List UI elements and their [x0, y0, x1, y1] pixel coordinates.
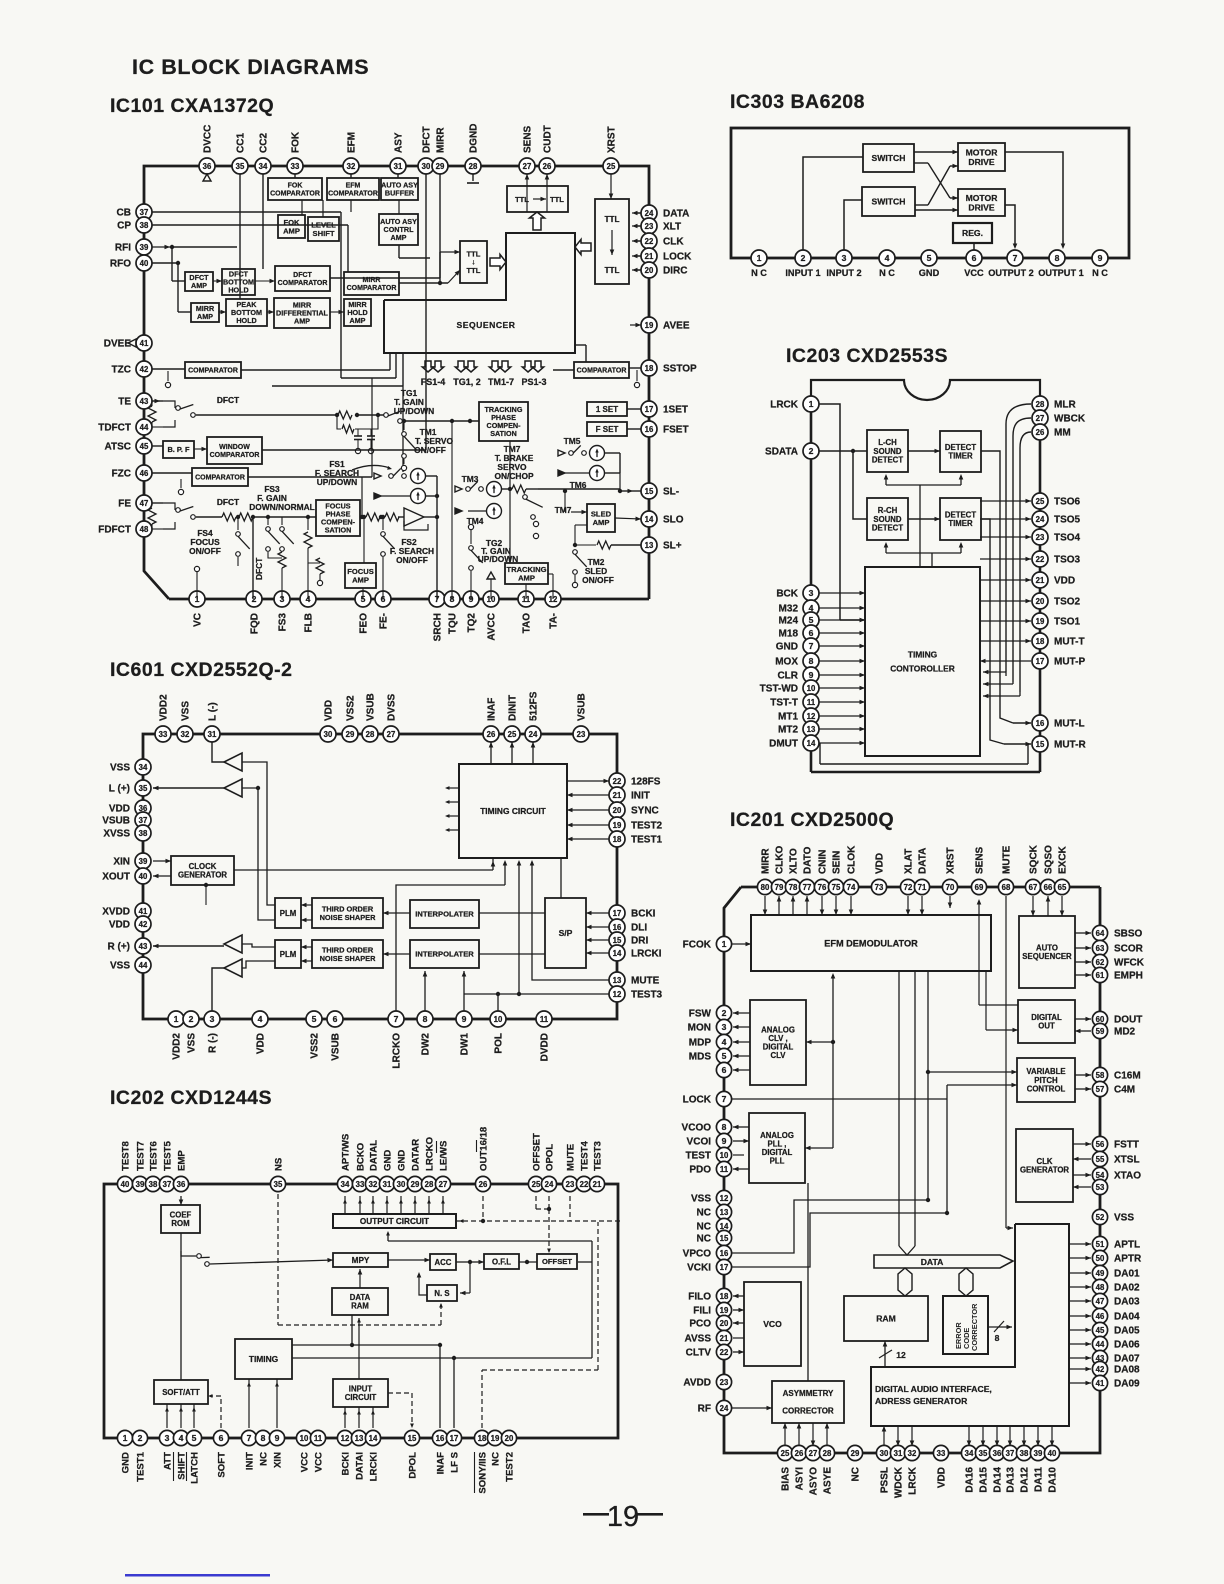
svg-text:1SET: 1SET	[663, 405, 688, 416]
svg-text:TEST2: TEST2	[631, 821, 663, 832]
svg-text:6: 6	[333, 1014, 338, 1024]
svg-text:42: 42	[1096, 1365, 1105, 1374]
svg-text:MUT-T: MUT-T	[1054, 637, 1085, 648]
svg-text:26: 26	[1036, 428, 1045, 437]
svg-text:CONTROL: CONTROL	[1027, 1084, 1066, 1093]
svg-text:10: 10	[807, 684, 816, 693]
svg-text:FS1-4: FS1-4	[421, 377, 446, 387]
svg-text:DA03: DA03	[1114, 1297, 1140, 1308]
svg-text:17: 17	[645, 405, 654, 414]
svg-text:24: 24	[545, 1180, 554, 1189]
svg-text:CLK: CLK	[663, 237, 684, 248]
svg-text:7: 7	[247, 1433, 252, 1443]
svg-text:COMPARATOR: COMPARATOR	[195, 475, 245, 482]
svg-text:46: 46	[140, 469, 149, 478]
svg-text:18: 18	[1036, 637, 1045, 646]
svg-text:DATAL: DATAL	[369, 1140, 380, 1171]
svg-text:23: 23	[577, 730, 586, 739]
svg-text:DRIVE: DRIVE	[968, 202, 995, 212]
svg-text:VSUB: VSUB	[102, 816, 130, 827]
svg-text:LE/WS: LE/WS	[439, 1140, 450, 1171]
svg-text:59: 59	[1096, 1027, 1105, 1036]
svg-text:LATCH: LATCH	[190, 1452, 201, 1484]
svg-text:28: 28	[823, 1449, 832, 1458]
svg-text:DATAI: DATAI	[355, 1452, 366, 1480]
svg-text:45: 45	[140, 442, 149, 451]
svg-text:M32: M32	[779, 604, 799, 615]
svg-text:DATA: DATA	[663, 209, 689, 220]
svg-text:34: 34	[139, 763, 148, 772]
svg-text:FILI: FILI	[693, 1306, 711, 1317]
svg-text:MDS: MDS	[689, 1052, 712, 1063]
svg-text:77: 77	[803, 883, 812, 892]
svg-text:73: 73	[875, 883, 884, 892]
svg-text:25: 25	[1036, 497, 1045, 506]
svg-text:37: 37	[1006, 1449, 1015, 1458]
svg-text:8: 8	[261, 1433, 266, 1443]
svg-text:29: 29	[411, 1180, 420, 1189]
svg-text:41: 41	[139, 907, 148, 916]
svg-text:32: 32	[347, 162, 356, 171]
svg-text:FSET: FSET	[663, 425, 689, 436]
svg-text:24: 24	[529, 730, 538, 739]
svg-text:6: 6	[722, 1065, 727, 1075]
svg-text:AVCC: AVCC	[487, 613, 498, 641]
svg-text:36: 36	[203, 162, 212, 171]
svg-text:DW2: DW2	[421, 1033, 432, 1056]
svg-text:GND: GND	[776, 642, 798, 653]
svg-text:VSS: VSS	[691, 1194, 711, 1205]
svg-text:GND: GND	[121, 1452, 132, 1473]
svg-text:SRCH: SRCH	[433, 613, 444, 641]
svg-text:IC203 CXD2553S: IC203 CXD2553S	[786, 345, 948, 367]
svg-text:VDD2: VDD2	[159, 694, 170, 721]
svg-text:INPUT 2: INPUT 2	[826, 268, 861, 278]
svg-text:RF: RF	[698, 1404, 711, 1415]
svg-text:SEQUENCER: SEQUENCER	[457, 320, 516, 330]
svg-text:NOISE SHAPER: NOISE SHAPER	[320, 954, 377, 963]
svg-text:DATA: DATA	[921, 1257, 944, 1267]
svg-text:TG1, 2: TG1, 2	[453, 377, 481, 387]
svg-text:37: 37	[163, 1180, 172, 1189]
svg-text:2: 2	[722, 1008, 727, 1018]
svg-text:SDATA: SDATA	[765, 447, 798, 458]
svg-text:22: 22	[1036, 555, 1045, 564]
svg-text:FEO: FEO	[359, 613, 370, 634]
svg-text:35: 35	[979, 1449, 988, 1458]
svg-text:INTERPOLATER: INTERPOLATER	[415, 950, 474, 959]
svg-text:DFCT: DFCT	[293, 272, 312, 279]
svg-text:22: 22	[720, 1348, 729, 1357]
svg-text:56: 56	[1096, 1140, 1105, 1149]
svg-text:23: 23	[566, 1180, 575, 1189]
svg-text:7: 7	[1013, 253, 1018, 263]
svg-text:FSW: FSW	[689, 1009, 712, 1020]
svg-text:TTL: TTL	[604, 215, 619, 224]
svg-text:68: 68	[1002, 883, 1011, 892]
svg-text:9: 9	[1098, 253, 1103, 263]
svg-text:32: 32	[369, 1180, 378, 1189]
svg-text:62: 62	[1096, 958, 1105, 967]
svg-text:TIMING CIRCUIT: TIMING CIRCUIT	[480, 806, 546, 816]
svg-text:44: 44	[140, 423, 149, 432]
svg-text:FE: FE	[118, 499, 131, 510]
svg-text:78: 78	[789, 883, 798, 892]
svg-text:37: 37	[140, 208, 149, 217]
svg-text:SHIFT: SHIFT	[177, 1452, 188, 1480]
svg-text:9: 9	[809, 670, 814, 680]
svg-text:DA14: DA14	[993, 1467, 1004, 1493]
svg-text:DA09: DA09	[1114, 1379, 1140, 1390]
svg-text:BCK: BCK	[776, 589, 798, 600]
svg-text:67: 67	[1029, 883, 1038, 892]
svg-text:20: 20	[1036, 597, 1045, 606]
svg-text:DA05: DA05	[1114, 1326, 1140, 1337]
svg-text:TSO3: TSO3	[1054, 555, 1081, 566]
svg-text:MOX: MOX	[775, 657, 798, 668]
svg-text:66: 66	[1044, 883, 1053, 892]
svg-text:IC303 BA6208: IC303 BA6208	[730, 91, 865, 113]
svg-text:4: 4	[179, 1433, 184, 1443]
svg-text:SL+: SL+	[663, 541, 682, 552]
svg-text:VCC: VCC	[964, 268, 984, 278]
svg-text:OFFSET: OFFSET	[542, 1257, 572, 1266]
svg-text:VDD: VDD	[937, 1467, 948, 1488]
svg-text:XVSS: XVSS	[103, 829, 130, 840]
svg-text:4: 4	[885, 253, 890, 263]
svg-text:42: 42	[140, 365, 149, 374]
svg-text:DA08: DA08	[1114, 1365, 1140, 1376]
svg-text:30: 30	[880, 1449, 889, 1458]
svg-text:3: 3	[165, 1433, 170, 1443]
svg-text:33: 33	[937, 1449, 946, 1458]
svg-text:VDD: VDD	[109, 804, 130, 815]
svg-text:47: 47	[1096, 1297, 1105, 1306]
svg-text:FOK: FOK	[288, 183, 303, 190]
svg-text:UP/DOWN: UP/DOWN	[317, 477, 357, 487]
svg-text:38: 38	[140, 221, 149, 230]
svg-text:25: 25	[508, 730, 517, 739]
svg-text:3: 3	[722, 1022, 727, 1032]
svg-text:RAM: RAM	[351, 1302, 369, 1311]
svg-text:R (-): R (-)	[208, 1033, 219, 1053]
svg-text:19: 19	[1036, 617, 1045, 626]
svg-text:ATT: ATT	[163, 1452, 174, 1470]
svg-text:TSO1: TSO1	[1054, 617, 1081, 628]
svg-text:IC201 CXD2500Q: IC201 CXD2500Q	[730, 809, 894, 831]
svg-text:L (-): L (-)	[208, 702, 219, 721]
svg-text:32: 32	[181, 730, 190, 739]
svg-text:IC101 CXA1372Q: IC101 CXA1372Q	[110, 95, 274, 117]
svg-text:DFCT: DFCT	[254, 557, 264, 580]
svg-text:VCC: VCC	[314, 1452, 325, 1472]
svg-text:COMPARATOR: COMPARATOR	[278, 280, 328, 287]
svg-text:GND: GND	[383, 1150, 394, 1171]
svg-text:VCO: VCO	[763, 1319, 782, 1329]
svg-text:21: 21	[1036, 576, 1045, 585]
svg-text:29: 29	[346, 730, 355, 739]
svg-text:AVDD: AVDD	[683, 1378, 711, 1389]
svg-text:8: 8	[423, 1014, 428, 1024]
svg-text:80: 80	[761, 883, 770, 892]
svg-text:18: 18	[720, 1292, 729, 1301]
svg-text:18: 18	[478, 1434, 487, 1443]
svg-text:MIRR: MIRR	[761, 848, 772, 874]
svg-text:XLT: XLT	[663, 222, 681, 233]
svg-text:VCC: VCC	[300, 1452, 311, 1472]
svg-text:SOFT/ATT: SOFT/ATT	[162, 1388, 200, 1397]
svg-text:TM5: TM5	[564, 436, 581, 446]
svg-text:23: 23	[645, 222, 654, 231]
svg-text:RFI: RFI	[115, 243, 131, 254]
svg-text:NC: NC	[697, 1208, 711, 1219]
svg-text:L (+): L (+)	[109, 784, 130, 795]
svg-text:AMP: AMP	[283, 226, 300, 235]
svg-text:CLOK: CLOK	[847, 845, 858, 874]
svg-text:22: 22	[645, 237, 654, 246]
svg-text:TEST5: TEST5	[163, 1140, 174, 1171]
svg-text:VDD: VDD	[875, 853, 886, 874]
svg-text:MIRR: MIRR	[436, 127, 447, 153]
svg-text:COMPARATOR: COMPARATOR	[270, 190, 320, 197]
svg-text:16: 16	[613, 923, 622, 932]
svg-text:XOUT: XOUT	[102, 872, 130, 883]
svg-text:NC: NC	[259, 1452, 270, 1466]
svg-text:CB: CB	[117, 208, 131, 219]
svg-text:1: 1	[757, 253, 762, 263]
svg-text:34: 34	[965, 1449, 974, 1458]
svg-text:21: 21	[613, 791, 622, 800]
svg-text:28: 28	[366, 730, 375, 739]
svg-text:29: 29	[436, 162, 445, 171]
svg-text:60: 60	[1096, 1015, 1105, 1024]
svg-text:WBCK: WBCK	[1054, 414, 1086, 425]
svg-text:5: 5	[722, 1051, 727, 1061]
svg-text:DA04: DA04	[1114, 1312, 1140, 1323]
svg-text:11: 11	[720, 1165, 729, 1174]
svg-text:C4M: C4M	[1114, 1085, 1135, 1096]
svg-text:SEQUENCER: SEQUENCER	[1022, 952, 1072, 961]
svg-text:52: 52	[1096, 1213, 1105, 1222]
svg-text:INIT: INIT	[631, 791, 650, 802]
svg-text:ON/CHOP: ON/CHOP	[494, 471, 534, 481]
svg-text:NS: NS	[274, 1157, 285, 1171]
svg-text:SENS: SENS	[975, 846, 986, 874]
svg-text:FLB: FLB	[304, 613, 315, 632]
svg-text:50: 50	[1096, 1254, 1105, 1263]
svg-text:37: 37	[139, 816, 148, 825]
svg-text:FS3: FS3	[278, 613, 289, 632]
svg-text:TEST: TEST	[685, 1151, 711, 1162]
svg-text:3: 3	[842, 253, 847, 263]
svg-text:10: 10	[720, 1151, 729, 1160]
svg-text:15: 15	[720, 1234, 729, 1243]
svg-text:SATION: SATION	[325, 526, 352, 535]
svg-text:DA15: DA15	[979, 1467, 990, 1493]
svg-text:DRI: DRI	[631, 936, 648, 947]
svg-text:CLTV: CLTV	[686, 1348, 712, 1359]
svg-text:EFM DEMODULATOR: EFM DEMODULATOR	[824, 938, 918, 948]
svg-text:26: 26	[543, 162, 552, 171]
svg-text:61: 61	[1096, 971, 1105, 980]
svg-text:DA02: DA02	[1114, 1283, 1140, 1294]
svg-text:38: 38	[139, 829, 148, 838]
svg-text:SSTOP: SSTOP	[663, 364, 697, 375]
svg-text:S/P: S/P	[559, 928, 573, 938]
svg-text:VCOO: VCOO	[682, 1123, 712, 1134]
svg-text:NC: NC	[491, 1452, 502, 1466]
svg-text:20: 20	[505, 1434, 514, 1443]
svg-text:AMP: AMP	[350, 316, 366, 325]
svg-text:TEST1: TEST1	[136, 1451, 147, 1482]
svg-text:MT2: MT2	[778, 725, 798, 736]
svg-text:N C: N C	[751, 268, 767, 278]
svg-text:AMP: AMP	[191, 281, 207, 290]
svg-text:38: 38	[149, 1180, 158, 1189]
svg-text:11: 11	[540, 1015, 549, 1024]
svg-text:BCKI: BCKI	[341, 1452, 352, 1476]
svg-text:75: 75	[832, 883, 841, 892]
svg-text:24: 24	[645, 209, 654, 218]
svg-text:VSUB: VSUB	[366, 693, 377, 721]
svg-text:DFCT: DFCT	[217, 497, 240, 507]
svg-text:DA07: DA07	[1114, 1354, 1140, 1365]
svg-text:26: 26	[795, 1449, 804, 1458]
svg-text:19: 19	[613, 821, 622, 830]
svg-text:2: 2	[801, 253, 806, 263]
svg-text:22: 22	[580, 1180, 589, 1189]
svg-text:VCKI: VCKI	[687, 1263, 711, 1274]
svg-text:TDFCT: TDFCT	[98, 423, 131, 434]
svg-text:27: 27	[523, 162, 532, 171]
svg-text:MUT-L: MUT-L	[1054, 719, 1085, 730]
svg-text:VPCO: VPCO	[683, 1249, 712, 1260]
svg-text:12: 12	[341, 1434, 350, 1443]
svg-text:OPOL: OPOL	[545, 1144, 556, 1171]
svg-text:DVDD: DVDD	[540, 1033, 551, 1061]
svg-text:5: 5	[927, 253, 932, 263]
svg-text:DVEE: DVEE	[104, 339, 132, 350]
svg-text:27: 27	[809, 1449, 818, 1458]
svg-text:DETECT: DETECT	[872, 523, 903, 532]
svg-text:63: 63	[1096, 944, 1105, 953]
svg-text:ASYE: ASYE	[823, 1467, 834, 1495]
svg-text:SLO: SLO	[663, 515, 684, 526]
svg-text:69: 69	[975, 883, 984, 892]
svg-text:24: 24	[1036, 515, 1045, 524]
svg-text:SONY/IIS: SONY/IIS	[478, 1451, 489, 1493]
svg-text:13: 13	[807, 725, 816, 734]
svg-text:41: 41	[140, 339, 149, 348]
svg-text:DINIT: DINIT	[508, 695, 519, 721]
svg-text:1: 1	[174, 1014, 179, 1024]
svg-text:B. P. F: B. P. F	[167, 445, 190, 454]
svg-text:XVDD: XVDD	[102, 907, 130, 918]
svg-text:6: 6	[219, 1433, 224, 1443]
svg-text:AVSS: AVSS	[685, 1334, 712, 1345]
svg-text:TZC: TZC	[112, 365, 131, 376]
svg-text:34: 34	[341, 1180, 350, 1189]
svg-text:48: 48	[140, 525, 149, 534]
svg-text:16: 16	[436, 1434, 445, 1443]
svg-text:DPOL: DPOL	[408, 1452, 419, 1479]
svg-text:53: 53	[1096, 1183, 1105, 1192]
svg-text:XIN: XIN	[273, 1452, 284, 1468]
svg-text:BCKO: BCKO	[356, 1142, 367, 1171]
svg-text:WDCK: WDCK	[894, 1466, 905, 1498]
svg-text:FILO: FILO	[688, 1292, 711, 1303]
svg-text:VSS: VSS	[110, 763, 130, 774]
svg-text:ASY: ASY	[394, 132, 405, 153]
svg-text:MDP: MDP	[689, 1038, 712, 1049]
svg-text:40: 40	[140, 259, 149, 268]
svg-text:35: 35	[236, 162, 245, 171]
svg-text:TST-WD: TST-WD	[760, 684, 798, 695]
svg-text:SENS: SENS	[523, 125, 534, 153]
svg-text:11: 11	[807, 698, 816, 707]
svg-text:PSSL: PSSL	[880, 1467, 891, 1493]
svg-text:XRST: XRST	[946, 847, 957, 874]
svg-text:6: 6	[972, 253, 977, 263]
svg-text:VSS2: VSS2	[346, 695, 357, 721]
svg-text:10: 10	[300, 1434, 309, 1443]
svg-text:72: 72	[904, 883, 913, 892]
svg-text:SWITCH: SWITCH	[872, 197, 906, 207]
svg-text:XRST: XRST	[607, 126, 618, 153]
svg-text:40: 40	[121, 1180, 130, 1189]
svg-text:ON/OFF: ON/OFF	[189, 546, 221, 556]
svg-text:SATION: SATION	[490, 429, 517, 438]
svg-text:F SET: F SET	[596, 425, 619, 434]
svg-text:TSO4: TSO4	[1054, 533, 1081, 544]
svg-text:LF S: LF S	[450, 1451, 461, 1472]
svg-text:18: 18	[645, 364, 654, 373]
svg-text:20: 20	[720, 1319, 729, 1328]
svg-text:BIAS: BIAS	[781, 1467, 792, 1491]
svg-text:TIMING: TIMING	[249, 1354, 278, 1364]
svg-text:28: 28	[425, 1180, 434, 1189]
svg-text:EMP: EMP	[177, 1150, 188, 1171]
svg-text:7: 7	[394, 1014, 399, 1024]
svg-text:SEIN: SEIN	[832, 851, 843, 874]
svg-text:LOCK: LOCK	[683, 1095, 712, 1106]
svg-text:DVCC: DVCC	[203, 125, 214, 153]
svg-text:MD2: MD2	[1114, 1027, 1136, 1038]
svg-text:74: 74	[847, 883, 856, 892]
svg-text:LRCKO: LRCKO	[425, 1136, 436, 1171]
svg-text:PCO: PCO	[689, 1319, 711, 1330]
svg-text:51: 51	[1096, 1240, 1105, 1249]
svg-text:TSO5: TSO5	[1054, 515, 1081, 526]
svg-text:TIMER: TIMER	[948, 519, 973, 528]
svg-text:VSS: VSS	[1114, 1213, 1134, 1224]
svg-text:26: 26	[479, 1180, 488, 1189]
svg-text:TTL: TTL	[467, 266, 481, 275]
svg-text:FZC: FZC	[112, 469, 131, 480]
svg-text:N. S: N. S	[434, 1289, 449, 1298]
svg-text:TEST4: TEST4	[580, 1140, 591, 1171]
svg-text:13: 13	[645, 541, 654, 550]
svg-text:3: 3	[809, 588, 814, 598]
svg-text:BCKI: BCKI	[631, 909, 656, 920]
svg-text:SOFT: SOFT	[217, 1452, 228, 1478]
svg-text:DIGITAL AUDIO INTERFACE,: DIGITAL AUDIO INTERFACE,	[875, 1384, 992, 1394]
svg-text:TEST8: TEST8	[121, 1140, 132, 1171]
svg-text:12: 12	[720, 1194, 729, 1203]
svg-text:31: 31	[394, 162, 403, 171]
svg-text:ASYI: ASYI	[795, 1467, 806, 1491]
svg-text:INPUT 1: INPUT 1	[785, 268, 820, 278]
